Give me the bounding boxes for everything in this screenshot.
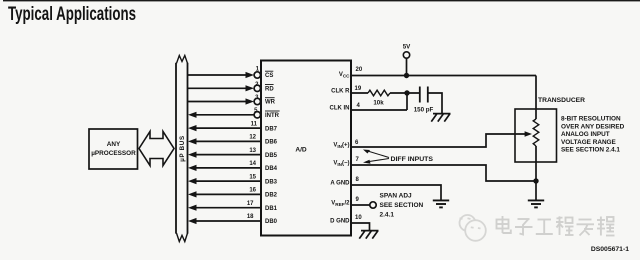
5V supply terminal [403,44,411,76]
pin 1 bubble [254,72,260,78]
chassis ground (capacitor) [431,114,450,122]
svg-text:µPROCESSOR: µPROCESSOR [91,150,136,157]
svg-text:18: 18 [247,214,254,220]
svg-text:DB3: DB3 [265,179,278,185]
svg-text:DB5: DB5 [265,153,278,159]
svg-text:SPAN ADJ: SPAN ADJ [380,193,413,200]
svg-text:8-BIT RESOLUTION: 8-BIT RESOLUTION [561,116,621,123]
svg-text:WR: WR [265,100,276,106]
svg-text:TRANSDUCER: TRANSDUCER [538,97,585,104]
svg-text:ANY: ANY [107,141,121,148]
svg-text:CLK R: CLK R [331,89,350,95]
svg-text:DB6: DB6 [265,140,278,146]
svg-text:10: 10 [355,215,362,221]
svg-text:µP BUS: µP BUS [179,135,186,162]
svg-text:VIN(+): VIN(+) [333,143,349,150]
pin 3 bubble [254,98,260,104]
wire RD [188,85,254,91]
wire CLK R [351,92,368,94]
wire WR [188,98,254,104]
svg-text:10k: 10k [373,100,384,107]
pin numbers left [247,66,260,220]
capacitor 150pF [420,87,428,103]
microprocessor box [89,129,138,169]
svg-text:VOLTAGE RANGE: VOLTAGE RANGE [561,139,617,146]
wire resistor to capacitor [390,92,419,94]
svg-text:DB1: DB1 [265,206,278,212]
svg-text:12: 12 [249,135,256,141]
wire DB6 [188,138,261,144]
wire D GND [351,223,370,230]
pin 2 bubble [254,85,260,91]
junction VCC/5V [404,73,409,78]
watermark logo [460,215,486,241]
svg-text:A/D: A/D [295,147,307,154]
svg-text:DB4: DB4 [265,166,278,172]
svg-text:VCC: VCC [339,72,350,79]
svg-text:DIFF INPUTS: DIFF INPUTS [391,156,434,163]
wire INTR [188,112,254,118]
wire VCC [351,75,536,77]
bidirectional bus arrow [139,132,174,166]
wiper arrowhead [525,131,532,136]
wire CLK IN [351,93,407,110]
chip right pin labels [330,72,351,225]
uP BUS [176,56,188,242]
junction clk [404,90,409,95]
watermark text 电子工程专辑 [497,216,615,236]
svg-text:DB2: DB2 [265,193,278,199]
svg-text:A GND: A GND [330,181,350,187]
span adj terminal [370,202,376,208]
svg-text:2.4.1: 2.4.1 [380,212,395,219]
svg-text:INTR: INTR [265,113,280,119]
svg-text:13: 13 [249,148,256,154]
wire capacitor to ground [428,93,442,113]
wire CS [188,72,254,78]
pin numbers right [355,67,363,221]
wire A GND [351,185,441,200]
svg-text:19: 19 [355,86,362,92]
wire DB2 [188,191,261,197]
svg-text:11: 11 [251,121,258,127]
transducer note [561,116,625,154]
svg-text:OVER ANY DESIRED: OVER ANY DESIRED [561,123,625,130]
svg-text:RD: RD [265,87,274,93]
svg-text:DB0: DB0 [265,219,278,225]
wire VIN- [351,165,536,181]
svg-text:DS005671-1: DS005671-1 [591,246,629,253]
svg-text:5V: 5V [403,44,411,51]
pin 5 bubble [254,112,260,118]
wire DB0 [188,218,261,224]
svg-text:D GND: D GND [330,219,350,225]
span adj labels [380,193,424,219]
svg-text:150 pF: 150 pF [414,106,434,113]
svg-text:DB7: DB7 [265,126,278,132]
wire DB5 [188,152,261,158]
wire DB3 [188,178,261,184]
svg-text:16: 16 [249,188,256,194]
chip left pin labels [265,71,280,225]
svg-text:20: 20 [356,67,363,73]
earth ground (A GND) [433,200,449,207]
transducer [515,76,557,182]
wire DB4 [188,165,261,171]
chassis ground (D GND) [359,231,378,239]
svg-text:CS: CS [265,73,273,79]
resistor 10k [368,90,390,96]
svg-text:VREF/2: VREF/2 [331,201,350,208]
earth ground (transducer) [528,200,544,207]
wire VREF/2 [351,204,370,206]
svg-text:Typical Applications: Typical Applications [8,4,136,25]
A/D converter chip [261,61,351,236]
wire transducer to ground [535,181,537,200]
junction transducer/VIN- [533,178,538,183]
wire VIN+ [351,134,525,147]
svg-text:SEE SECTION 2.4.1: SEE SECTION 2.4.1 [561,147,620,154]
wire DB7 [188,125,261,131]
svg-text:17: 17 [247,201,254,207]
svg-text:14: 14 [249,161,256,167]
svg-text:15: 15 [249,174,256,180]
svg-text:ANALOG INPUT: ANALOG INPUT [561,131,610,138]
svg-text:CLK IN: CLK IN [330,106,350,112]
svg-text:VIN(−): VIN(−) [333,161,349,168]
svg-text:SEE SECTION: SEE SECTION [380,202,424,209]
DIFF INPUTS callout [363,150,434,164]
wire DB1 [188,205,261,211]
